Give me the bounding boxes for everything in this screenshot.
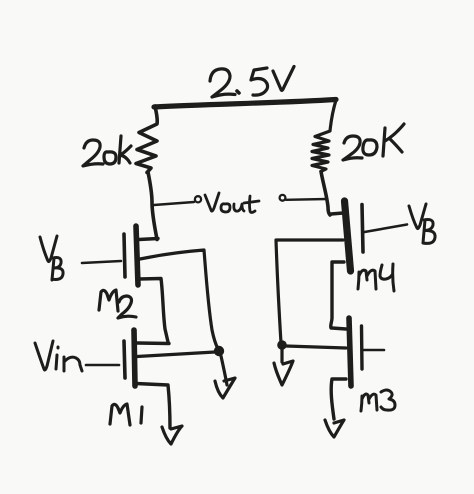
wire: M2 drain stub (139, 239, 158, 240)
wire: M1 drain stub (137, 341, 169, 345)
junction dot (right bulk node) (277, 340, 287, 350)
node Vout left terminal (195, 196, 201, 202)
wire: M2 bulk to left ground junction (140, 250, 218, 349)
node label Vout (205, 193, 259, 213)
label m3 (361, 390, 395, 411)
wire: R2 bottom to M4 drain (321, 172, 330, 216)
net label Vin (35, 341, 82, 371)
ground (M1 source) (162, 426, 182, 444)
resistor R1 (left 20k) (136, 106, 157, 173)
label M1 (110, 404, 142, 425)
ground (right bulk node) (274, 361, 293, 385)
net label VB (left) (40, 236, 63, 280)
junction dot (left bulk node) (214, 346, 224, 356)
wire: M4 gate to VB (365, 225, 408, 233)
transistor M2 (gate bar + channel bar) (124, 226, 138, 285)
wire: VB to M2 gate (82, 261, 121, 263)
wire: 2.5V supply rail (154, 100, 336, 108)
transistor M3 (channel bar + gate bar) (349, 318, 362, 386)
wire: Vout right tap (286, 198, 327, 201)
wire: M1 bulk to left ground junction (137, 352, 215, 357)
ground (left bulk node) (215, 378, 235, 398)
label m4 (358, 264, 394, 291)
wire: left junction down to ground (221, 356, 227, 385)
wire: right junction down to ground (280, 349, 283, 362)
wire: M3 drain stub (332, 328, 346, 329)
value label 20k (R1) (83, 136, 131, 166)
wire: M4 source down to M3 drain (331, 262, 344, 328)
ground (M3 source) (325, 420, 344, 437)
value label 2.5V (210, 67, 294, 98)
wire: M1 source down to ground (136, 384, 170, 429)
wire: M4 drain stub (331, 213, 343, 214)
transistor M1 (gate bar + channel bar) (124, 330, 135, 386)
node Vout right terminal (280, 195, 286, 201)
wire: M3 source down to ground (331, 379, 346, 419)
resistor R2 (right 20K) (312, 100, 336, 172)
label M2 (99, 290, 136, 318)
net label VB (right) (409, 204, 435, 243)
wire: M4 bulk to right ground junction (276, 240, 343, 343)
wire: M3 gate stub (364, 349, 384, 352)
value label 20K (R2) (343, 124, 404, 160)
wire: R1 bottom to M2 drain (148, 172, 157, 240)
wire: Vin to M1 gate (86, 364, 119, 367)
wire: M3 bulk to right ground junction (286, 346, 346, 348)
wire: Vout left tap (154, 202, 194, 205)
transistor M4 (channel bar + gate bar) (345, 201, 364, 271)
wire: M2 source down to M1 drain (139, 279, 168, 343)
